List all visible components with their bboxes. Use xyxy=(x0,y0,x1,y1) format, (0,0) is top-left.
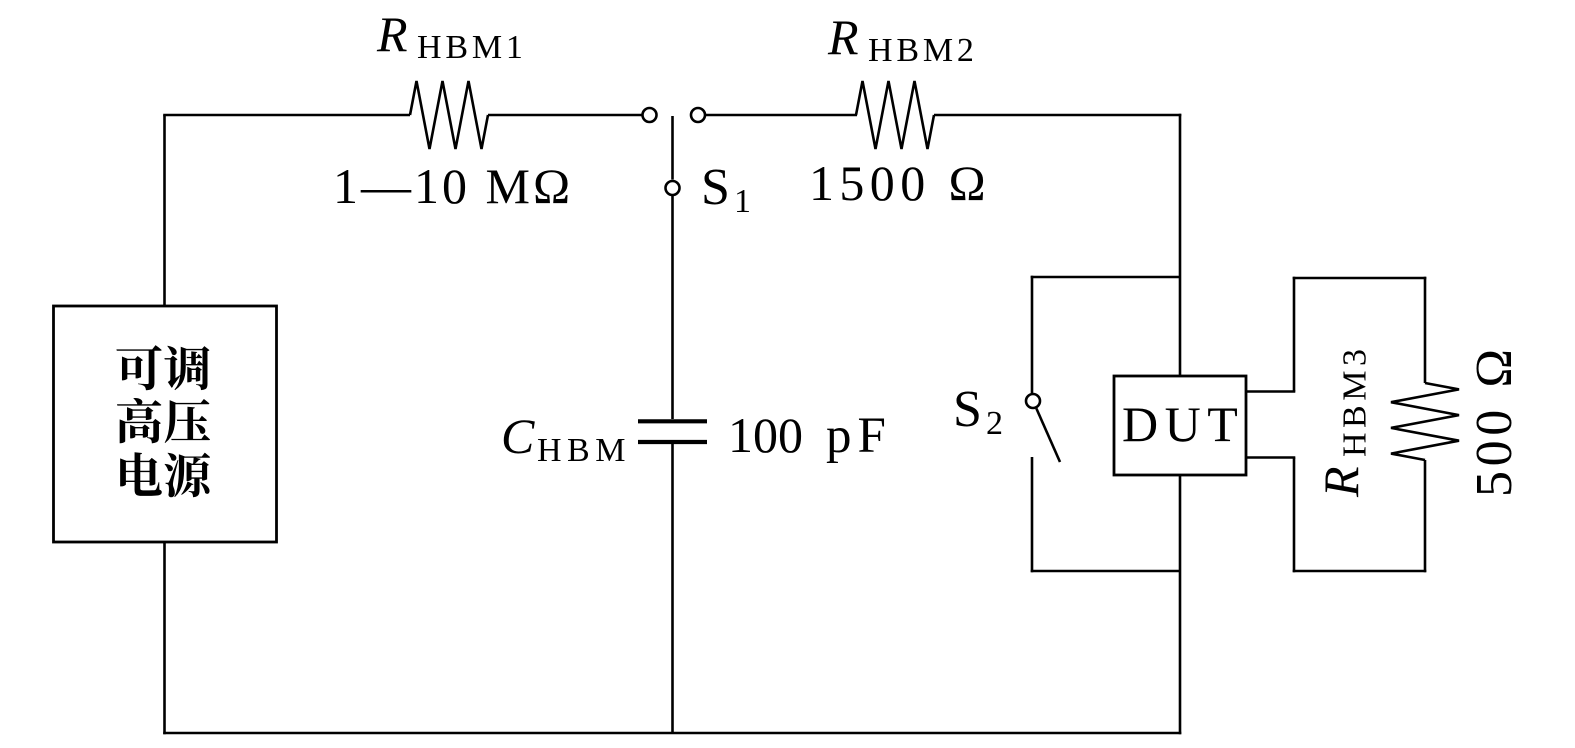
svg-text:HBM: HBM xyxy=(537,432,631,469)
label source text char dian xyxy=(120,452,162,496)
svg-text:100: 100 xyxy=(728,407,803,463)
voltage source box xyxy=(54,306,277,542)
wire capacitor to bottom rail xyxy=(671,444,674,733)
wire left vertical upper (source top lead) xyxy=(163,115,166,306)
svg-text:500 Ω: 500 Ω xyxy=(1466,344,1523,497)
wire DUT lower right stub xyxy=(1246,456,1295,459)
wire R_HBM3 loop right lower xyxy=(1424,460,1427,572)
switch S1 pole terminal circle xyxy=(666,181,680,195)
resistor R_HBM1 zigzag xyxy=(410,81,488,149)
svg-text:R: R xyxy=(376,6,408,62)
switch S2 pivot circle xyxy=(1026,394,1040,408)
label source text char gao xyxy=(117,398,161,443)
resistor R_HBM2 zigzag xyxy=(856,81,934,149)
wire bottom rail xyxy=(163,732,1181,735)
switch S2 blade (open, diagonal) xyxy=(1036,409,1060,463)
switch S1 left terminal circle xyxy=(643,108,657,122)
svg-text:R: R xyxy=(827,9,859,65)
svg-text:1: 1 xyxy=(734,183,751,220)
switch S1 blade (open, vertical) xyxy=(671,116,674,180)
label R_HBM3 value 500 ohm (rotated) xyxy=(1466,344,1523,497)
label source text char ya xyxy=(165,399,210,443)
label R_HBM3 (rotated) xyxy=(1313,345,1374,498)
capacitor C_HBM bottom plate xyxy=(638,440,707,444)
wire S2 upper lead xyxy=(1031,276,1034,393)
svg-text:C: C xyxy=(501,408,535,464)
wire R_HBM3 loop right upper xyxy=(1424,277,1427,383)
wire R_HBM3 loop left lower xyxy=(1293,458,1296,573)
wire top left segment xyxy=(163,114,410,117)
svg-text:1500 Ω: 1500 Ω xyxy=(809,155,991,211)
svg-text:2: 2 xyxy=(986,405,1003,442)
svg-text:S: S xyxy=(953,381,982,438)
svg-text:HBM2: HBM2 xyxy=(868,32,978,69)
wire R_HBM3 loop bottom xyxy=(1293,570,1427,573)
svg-text:pF: pF xyxy=(826,408,892,464)
svg-text:S: S xyxy=(701,159,730,216)
label source text char tiao xyxy=(164,346,209,390)
wire S2 lower lead xyxy=(1031,457,1034,572)
wire S2 branch top horizontal xyxy=(1031,276,1180,279)
wire R_HBM3 loop top xyxy=(1293,277,1427,280)
label source text char ke xyxy=(116,345,161,390)
wire S1 pole down to capacitor xyxy=(671,196,674,419)
svg-text:DUT: DUT xyxy=(1122,396,1244,452)
DUT box xyxy=(1114,376,1246,475)
wire right vertical lower (DUT bottom to rail) xyxy=(1179,475,1182,734)
capacitor C_HBM top plate xyxy=(638,419,707,423)
resistor R_HBM3 zigzag (vertical) xyxy=(1391,383,1459,460)
svg-text:HBM1: HBM1 xyxy=(417,29,527,66)
svg-text:R: R xyxy=(1313,466,1369,498)
wire R_HBM2 to right corner xyxy=(934,114,1181,117)
wire S1 to R_HBM2 xyxy=(706,114,857,117)
wire R_HBM1 to S1 xyxy=(488,114,642,117)
svg-text:1—10 MΩ: 1—10 MΩ xyxy=(333,158,573,214)
switch S1 right terminal circle xyxy=(691,108,705,122)
wire right vertical upper (to DUT top) xyxy=(1179,114,1182,376)
wire DUT upper right stub xyxy=(1246,390,1295,393)
wire R_HBM3 loop left upper xyxy=(1293,277,1296,392)
svg-text:HBM3: HBM3 xyxy=(1337,345,1374,457)
wire S2 branch bottom horizontal xyxy=(1031,570,1180,573)
wire left vertical lower (source bottom lead) xyxy=(163,542,166,734)
label source text char yuan xyxy=(165,453,211,498)
